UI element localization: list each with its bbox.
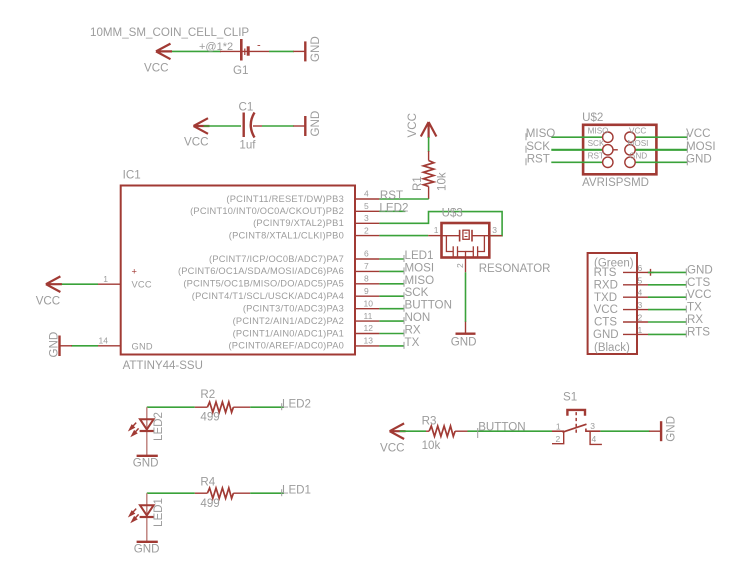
pin numbers bbox=[638, 263, 643, 335]
pin 8 stub bbox=[355, 283, 379, 285]
wire net CTS bbox=[648, 284, 686, 286]
resistor R3 bbox=[426, 426, 468, 436]
svg-text:TXD: TXD bbox=[594, 292, 617, 304]
svg-text:GND: GND bbox=[451, 335, 477, 348]
ground GND (resonator) bbox=[456, 322, 476, 334]
wire net TX bbox=[379, 345, 404, 347]
labels GND CTS VCC TX RX RTS bbox=[687, 263, 713, 338]
wire C1 to GND bbox=[262, 125, 294, 127]
svg-text:2: 2 bbox=[556, 434, 561, 444]
supply VCC bbox=[156, 44, 172, 60]
svg-text:VCC: VCC bbox=[184, 136, 208, 149]
svg-text:C1: C1 bbox=[239, 101, 254, 114]
wire net MOSI bbox=[379, 270, 404, 272]
wire RST in bbox=[551, 161, 602, 163]
svg-text:VCC: VCC bbox=[594, 304, 618, 316]
ground GND (C1) bbox=[293, 116, 305, 136]
pin 10 stub bbox=[355, 308, 379, 310]
svg-text:TX: TX bbox=[687, 301, 702, 314]
svg-text:8: 8 bbox=[364, 274, 369, 284]
svg-text:GND: GND bbox=[47, 332, 60, 358]
ground GND (battery) bbox=[293, 41, 305, 61]
svg-text:9: 9 bbox=[364, 286, 369, 296]
svg-text:499: 499 bbox=[200, 497, 219, 510]
svg-text:10k: 10k bbox=[435, 172, 448, 191]
svg-text:MOSI: MOSI bbox=[405, 261, 435, 274]
svg-text:VCC: VCC bbox=[380, 442, 404, 455]
svg-text:(PCINT1/AIN0/ADC1)PA1: (PCINT1/AIN0/ADC1)PA1 bbox=[233, 328, 344, 338]
net label ticks (U$2) bbox=[526, 133, 687, 165]
svg-text:3: 3 bbox=[638, 300, 643, 310]
contact lever bbox=[563, 424, 587, 432]
svg-text:7: 7 bbox=[364, 261, 369, 271]
wire net pin2 to resonator pin1 bbox=[379, 235, 428, 237]
ground GND (pin14) bbox=[60, 336, 73, 357]
svg-text:4: 4 bbox=[364, 189, 369, 199]
svg-text:2: 2 bbox=[364, 225, 369, 235]
wire SCK in bbox=[551, 149, 602, 151]
wire MOSI out bbox=[635, 149, 687, 151]
svg-text:NON: NON bbox=[405, 311, 431, 324]
svg-text:(PCINT11/RESET/DW)PB3: (PCINT11/RESET/DW)PB3 bbox=[226, 194, 344, 204]
pin 4 hook bbox=[590, 432, 602, 445]
pin 2 stub bbox=[623, 321, 648, 323]
wire VCC to C1 bbox=[204, 125, 242, 127]
svg-text:SCK: SCK bbox=[405, 286, 429, 299]
svg-text:LED2: LED2 bbox=[379, 201, 408, 214]
svg-text:10: 10 bbox=[364, 298, 374, 308]
svg-text:VCC: VCC bbox=[36, 295, 60, 308]
wire R3 to S1 bbox=[468, 430, 553, 432]
net label ticks bbox=[685, 268, 687, 337]
svg-text:RST: RST bbox=[380, 189, 403, 202]
svg-text:VCC: VCC bbox=[132, 280, 152, 290]
svg-text:6: 6 bbox=[638, 263, 643, 273]
pin 3 contact bbox=[586, 429, 601, 432]
labels MISO SCK RST / VCC MOSI GND bbox=[526, 127, 716, 165]
svg-text:499: 499 bbox=[200, 411, 219, 424]
pin 2 stub bbox=[355, 235, 379, 237]
svg-text:3: 3 bbox=[492, 225, 497, 235]
junction cross on pin 6 bbox=[647, 269, 654, 276]
svg-text:(PCINT3/T0/ADC3)PA3: (PCINT3/T0/ADC3)PA3 bbox=[243, 304, 344, 314]
wire VCC to R1 bbox=[428, 137, 430, 152]
svg-text:VCC: VCC bbox=[144, 62, 168, 75]
svg-text:2: 2 bbox=[455, 263, 465, 268]
net wires pins 6-13 bbox=[379, 259, 404, 346]
svg-text:MISO: MISO bbox=[526, 127, 556, 140]
wire net MISO bbox=[379, 283, 404, 285]
connector body bbox=[588, 253, 637, 354]
wire net RX bbox=[379, 333, 404, 335]
labels LED1..TX bbox=[405, 249, 452, 349]
pin stubs bbox=[623, 272, 648, 334]
svg-text:(PCINT8/XTAL1/CLKI)PB0: (PCINT8/XTAL1/CLKI)PB0 bbox=[229, 230, 344, 240]
svg-text:U$2: U$2 bbox=[582, 111, 603, 124]
svg-text:10MM_SM_COIN_CELL_CLIP: 10MM_SM_COIN_CELL_CLIP bbox=[90, 26, 249, 39]
svg-text:RST: RST bbox=[527, 152, 550, 165]
svg-text:MISO: MISO bbox=[405, 274, 435, 287]
pin 4 stub bbox=[623, 296, 648, 298]
svg-text:13: 13 bbox=[364, 336, 374, 346]
svg-text:RX: RX bbox=[687, 313, 703, 326]
svg-text:R1: R1 bbox=[411, 176, 424, 191]
svg-text:3: 3 bbox=[590, 421, 595, 431]
wire LED2 top corner to R2 bbox=[147, 406, 195, 408]
svg-text:RESONATOR: RESONATOR bbox=[479, 263, 551, 275]
cap branches bbox=[446, 236, 453, 252]
wire battery pin left bbox=[220, 50, 240, 52]
supply VCC bbox=[390, 423, 406, 439]
svg-text:(PCINT9/XTAL2)PB1: (PCINT9/XTAL2)PB1 bbox=[253, 218, 344, 228]
wire battery to GND bbox=[269, 50, 294, 52]
U$2 internal labels bbox=[588, 127, 649, 161]
svg-text:IC1: IC1 bbox=[123, 169, 141, 182]
svg-text:10k: 10k bbox=[422, 439, 441, 452]
svg-text:1: 1 bbox=[434, 225, 439, 235]
wire net RX bbox=[648, 321, 686, 323]
svg-text:VCC: VCC bbox=[406, 113, 419, 137]
svg-text:VCC: VCC bbox=[687, 288, 711, 301]
switch S1 bbox=[552, 410, 602, 445]
pin 1 VCC (left) bbox=[98, 283, 121, 285]
actuator bracket bbox=[567, 410, 585, 416]
battery G1 bbox=[241, 39, 269, 61]
svg-text:CTS: CTS bbox=[687, 276, 710, 289]
pin 6 stub bbox=[623, 271, 648, 273]
svg-text:14: 14 bbox=[99, 336, 109, 346]
wire GND to pin 14 bbox=[71, 345, 98, 347]
pin 2 hook bbox=[552, 432, 564, 444]
net wires out bbox=[648, 272, 686, 334]
pin 3 stub bbox=[623, 309, 648, 311]
svg-text:SCK: SCK bbox=[588, 139, 605, 148]
wire resonator pin2 to GND bbox=[465, 272, 467, 322]
wire net GND bbox=[648, 271, 686, 273]
net label ticks bbox=[403, 255, 405, 349]
svg-text:2: 2 bbox=[638, 313, 643, 323]
wire VCC out bbox=[635, 136, 687, 138]
pin 3 stub bbox=[355, 222, 379, 224]
pin 11 stub bbox=[355, 320, 379, 322]
pin 12 stub bbox=[355, 333, 379, 335]
wire VCC to pin 1 bbox=[58, 283, 98, 285]
svg-text:GND: GND bbox=[665, 416, 678, 442]
svg-text:(PCINT0/AREF/ADC0)PA0: (PCINT0/AREF/ADC0)PA0 bbox=[228, 341, 344, 351]
svg-text:VCC: VCC bbox=[686, 127, 710, 140]
svg-text:1uf: 1uf bbox=[239, 139, 256, 152]
svg-text:VCC: VCC bbox=[629, 127, 646, 136]
svg-text:RX: RX bbox=[405, 324, 421, 337]
svg-text:BUTTON: BUTTON bbox=[405, 299, 452, 312]
svg-text:6: 6 bbox=[364, 249, 369, 259]
svg-text:GND: GND bbox=[133, 457, 159, 470]
svg-text:RXD: RXD bbox=[594, 279, 618, 291]
svg-text:(Black): (Black) bbox=[594, 342, 630, 354]
svg-text:(PCINT7/ICP/OC0B/ADC7)PA7: (PCINT7/ICP/OC0B/ADC7)PA7 bbox=[209, 254, 344, 264]
ground GND (S1) bbox=[649, 421, 661, 441]
svg-text:12: 12 bbox=[364, 323, 374, 333]
svg-text:1: 1 bbox=[556, 422, 561, 432]
ic IC1 body bbox=[121, 186, 355, 355]
wire net RST (pin4 to R1) bbox=[379, 198, 428, 200]
resistor R1 bbox=[423, 151, 433, 199]
svg-text:MOSI: MOSI bbox=[686, 140, 716, 153]
pin 1 stub bbox=[623, 333, 648, 335]
svg-text:GND: GND bbox=[309, 111, 322, 137]
capacitor C1 bbox=[244, 113, 262, 138]
svg-text:+@1*2: +@1*2 bbox=[199, 41, 233, 53]
wire GND out bbox=[635, 161, 687, 163]
svg-text:CTS: CTS bbox=[594, 317, 617, 329]
svg-text:1: 1 bbox=[638, 325, 643, 335]
svg-text:R4: R4 bbox=[200, 475, 215, 488]
svg-text:(PCINT6/OC1A/SDA/MOSI/ADC6)PA6: (PCINT6/OC1A/SDA/MOSI/ADC6)PA6 bbox=[178, 266, 344, 276]
svg-text:MOSI: MOSI bbox=[628, 139, 649, 148]
wire net BUTTON bbox=[379, 308, 404, 310]
svg-text:4: 4 bbox=[592, 434, 597, 444]
pin 4 stub bbox=[355, 198, 379, 200]
resonator pin 2 stub bbox=[465, 258, 467, 273]
svg-text:AVRISPSMD: AVRISPSMD bbox=[582, 177, 649, 189]
connector U$2 body bbox=[583, 125, 656, 175]
svg-text:GND: GND bbox=[593, 329, 619, 341]
svg-text:1: 1 bbox=[103, 274, 108, 284]
pin 9 stub bbox=[355, 295, 379, 297]
pin 5 stub bbox=[623, 284, 648, 286]
svg-text:+: + bbox=[132, 267, 138, 277]
wire net LED2 (pin5) bbox=[379, 210, 405, 212]
pin 7 stub bbox=[355, 270, 379, 272]
IC1 internal pin names (right aligned) bbox=[178, 194, 344, 351]
svg-text:SCK: SCK bbox=[526, 140, 550, 153]
svg-text:G1: G1 bbox=[233, 64, 248, 77]
svg-text:5: 5 bbox=[638, 275, 643, 285]
wire VCC to R3 bbox=[400, 430, 426, 432]
svg-text:(PCINT4/T1/SCL/USCK/ADC4)PA4: (PCINT4/T1/SCL/USCK/ADC4)PA4 bbox=[192, 291, 344, 301]
svg-text:11: 11 bbox=[364, 311, 373, 321]
net label tick bbox=[477, 428, 479, 438]
svg-text:GND: GND bbox=[132, 341, 153, 351]
resistor R2 bbox=[195, 402, 250, 412]
wire net NON bbox=[379, 320, 404, 322]
resonator pin 3 stub bbox=[490, 235, 503, 237]
svg-text:(PCINT5/OC1B/MISO/DO/ADC5)PA5: (PCINT5/OC1B/MISO/DO/ADC5)PA5 bbox=[183, 279, 344, 289]
svg-text:TX: TX bbox=[405, 336, 420, 349]
pin 1 lead bbox=[552, 430, 564, 432]
wire net RTS bbox=[648, 333, 686, 335]
svg-text:ATTINY44-SSU: ATTINY44-SSU bbox=[123, 360, 203, 372]
wire S1 to GND bbox=[600, 430, 650, 432]
svg-text:GND: GND bbox=[687, 263, 713, 276]
wire net VCC bbox=[648, 296, 686, 298]
supply VCC (up arrow) bbox=[421, 122, 437, 138]
S1 pin numbers bbox=[556, 421, 597, 444]
pin 14 GND (left) bbox=[98, 345, 121, 347]
wire net LED1 bbox=[379, 258, 404, 260]
net label tick bbox=[281, 403, 283, 410]
svg-text:LED2: LED2 bbox=[152, 412, 165, 441]
svg-text:MISO: MISO bbox=[588, 127, 609, 136]
wire VCC to battery bbox=[166, 50, 221, 52]
crystal plates bbox=[459, 230, 461, 242]
svg-text:U$3: U$3 bbox=[442, 206, 463, 219]
svg-text:RTS: RTS bbox=[594, 267, 617, 279]
wire net TX bbox=[648, 309, 686, 311]
wire R2 to label bbox=[250, 406, 284, 408]
svg-text:LED1: LED1 bbox=[152, 498, 165, 527]
internal labels bbox=[593, 258, 634, 355]
svg-text:RST: RST bbox=[588, 152, 604, 161]
IC1 right-side pin numbers bbox=[364, 189, 374, 346]
supply VCC (pin1) bbox=[46, 276, 62, 292]
resonator pin 1 stub bbox=[428, 235, 441, 237]
svg-text:R3: R3 bbox=[422, 414, 437, 427]
pin 6 stub bbox=[355, 258, 379, 260]
svg-text:GND: GND bbox=[686, 152, 712, 165]
svg-text:BUTTON: BUTTON bbox=[478, 421, 525, 434]
resonator U$3 body bbox=[442, 223, 490, 258]
wire net pin3 to resonator pin3 (up and over) bbox=[379, 212, 502, 236]
svg-text:LED2: LED2 bbox=[282, 397, 311, 410]
svg-text:-: - bbox=[257, 40, 261, 52]
LED vertical wire bbox=[146, 407, 148, 456]
svg-text:GND: GND bbox=[309, 36, 322, 62]
svg-text:R2: R2 bbox=[200, 388, 215, 401]
svg-text:3: 3 bbox=[364, 213, 369, 223]
svg-text:5: 5 bbox=[364, 201, 369, 211]
svg-text:GND: GND bbox=[134, 543, 160, 556]
svg-text:4: 4 bbox=[638, 288, 643, 298]
svg-text:RTS: RTS bbox=[687, 325, 710, 338]
wire MISO in bbox=[551, 136, 602, 138]
IC1 right-side pin stubs bbox=[355, 199, 379, 346]
actuator dashed stem bbox=[575, 412, 577, 433]
svg-text:LED1: LED1 bbox=[405, 249, 434, 262]
svg-text:GND: GND bbox=[629, 152, 647, 161]
svg-text:(PCINT10/INT0/OC0A/CKOUT)PB2: (PCINT10/INT0/OC0A/CKOUT)PB2 bbox=[190, 206, 344, 216]
pin 13 stub bbox=[355, 345, 379, 347]
supply VCC bbox=[194, 118, 210, 134]
ground GND (LED) bbox=[137, 455, 158, 457]
svg-text:(PCINT2/AIN1/ADC2)PA2: (PCINT2/AIN1/ADC2)PA2 bbox=[233, 316, 344, 326]
crystal leads bbox=[442, 235, 460, 237]
pin 5 stub bbox=[355, 210, 379, 212]
led LED2 symbol bbox=[130, 419, 154, 435]
U$2 pads bbox=[603, 132, 636, 168]
crystal body bbox=[463, 230, 469, 239]
wire net SCK bbox=[379, 295, 404, 297]
U$2 SCK pad stub bbox=[613, 149, 618, 151]
svg-text:S1: S1 bbox=[563, 391, 577, 404]
svg-text:LED1: LED1 bbox=[282, 483, 311, 496]
